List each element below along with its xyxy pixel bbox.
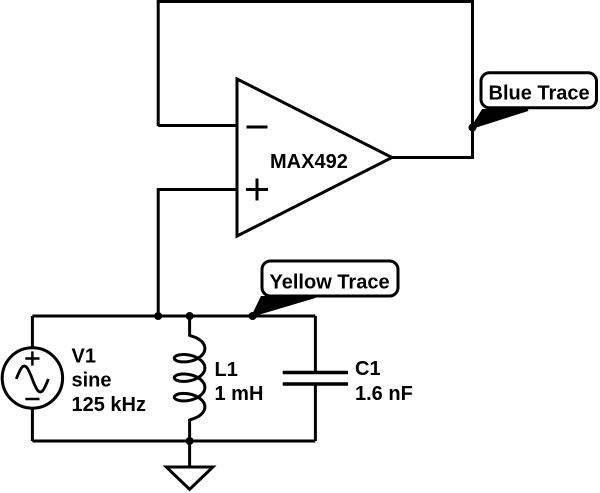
svg-text:V1: V1 [72,345,96,367]
wire op-amp output [392,156,474,159]
node yellow trace probe [249,312,257,320]
ground [166,441,213,489]
node junction inductor top [186,312,194,320]
voltage source V1 [2,316,146,441]
op-amp U1 MAX492 [237,79,392,236]
callout Yellow Trace [253,261,398,316]
wire tank bottom rail [32,440,315,443]
wire feedback top [158,2,472,158]
svg-text:sine: sine [72,370,112,392]
svg-text:1.6 nF: 1.6 nF [355,383,413,405]
inductor L1 [174,316,263,441]
node blue trace probe [469,124,477,132]
svg-text:Yellow Trace: Yellow Trace [270,272,390,294]
svg-text:Blue Trace: Blue Trace [489,83,590,105]
wire non-inverting input [158,190,237,317]
wire inverting input [158,124,237,127]
svg-text:125 kHz: 125 kHz [72,394,147,416]
wire tank top rail [32,315,315,318]
callout Blue Trace [472,73,597,128]
capacitor C1 [283,316,413,441]
node junction inductor bottom [186,437,194,445]
svg-text:1 mH: 1 mH [215,383,264,405]
svg-text:C1: C1 [355,358,381,380]
node junction opamp+ to tank [154,312,162,320]
svg-text:L1: L1 [215,359,238,381]
svg-text:MAX492: MAX492 [270,151,348,173]
